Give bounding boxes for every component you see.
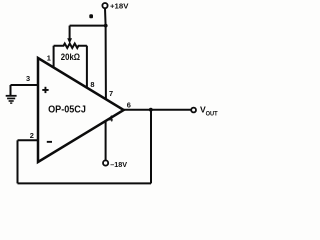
svg-text:–18V: –18V — [110, 160, 128, 169]
wire ground stub — [10, 85, 12, 96]
stray mark dot — [89, 14, 93, 18]
wire pot left leg to pin 1 — [53, 46, 55, 68]
wire feedback bottom horizontal — [18, 182, 152, 184]
wire pin 3 input — [11, 84, 39, 86]
svg-text:3: 3 — [26, 74, 30, 83]
ground — [6, 95, 17, 104]
svg-text:7: 7 — [109, 89, 113, 98]
wire feedback left vertical — [17, 140, 19, 183]
wire wiper horizontal to rail — [70, 25, 106, 27]
minus input sign — [47, 141, 52, 143]
svg-text:4: 4 — [109, 114, 114, 123]
op-amp U1 triangle — [38, 58, 124, 162]
wire feedback right vertical — [150, 110, 152, 184]
wire pin 4 down — [105, 121, 107, 160]
-18V terminal circle — [103, 160, 108, 165]
svg-text:2: 2 — [30, 131, 34, 140]
wire output — [124, 109, 192, 111]
wire wiper vertical — [69, 26, 71, 39]
wire +18V rail down to pin 7 — [104, 8, 107, 99]
potentiometer wiper arrow — [67, 38, 72, 44]
node junction dot on +18V rail — [104, 24, 108, 28]
wire pot right leg to pin 8 — [86, 46, 88, 88]
+18V terminal circle — [102, 3, 107, 8]
svg-text:OUT: OUT — [206, 110, 218, 117]
svg-text:20kΩ: 20kΩ — [61, 52, 80, 62]
svg-text:+18V: +18V — [110, 2, 129, 11]
resistor 20k pot body zigzag — [54, 44, 87, 49]
node output junction dot — [149, 108, 153, 112]
wire pin 2 input — [18, 139, 39, 141]
svg-text:1: 1 — [47, 54, 51, 63]
plus input sign — [42, 87, 48, 93]
svg-text:OP-05CJ: OP-05CJ — [48, 105, 86, 116]
svg-text:6: 6 — [127, 101, 131, 110]
svg-text:8: 8 — [90, 80, 94, 89]
vout terminal circle — [191, 108, 196, 113]
